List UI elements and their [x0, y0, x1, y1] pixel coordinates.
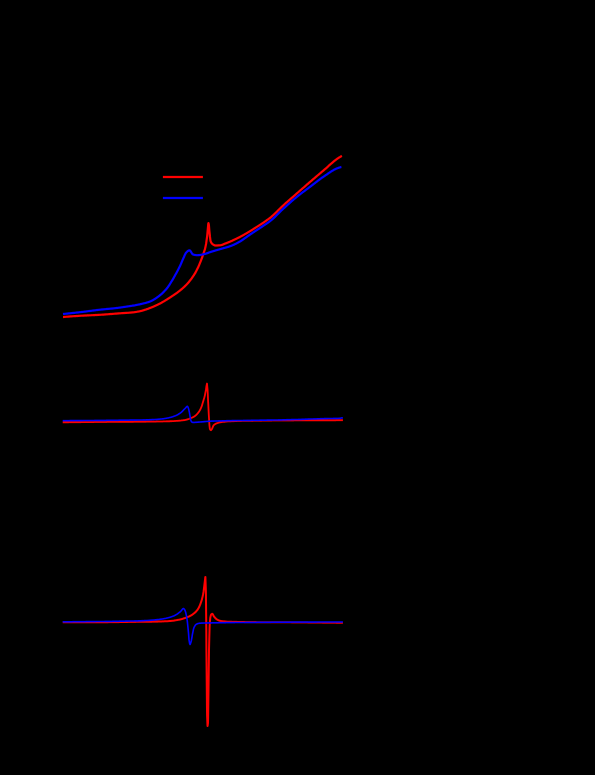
legend red sample line [163, 176, 203, 178]
legend blue sample line [163, 197, 203, 199]
middle plot: red curve [63, 384, 343, 431]
top plot: blue curve [63, 167, 341, 314]
middle plot: blue curve [63, 406, 343, 422]
bottom plot: blue curve [63, 609, 343, 645]
top plot: red curve [63, 156, 342, 317]
bottom plot: red curve [63, 577, 343, 726]
